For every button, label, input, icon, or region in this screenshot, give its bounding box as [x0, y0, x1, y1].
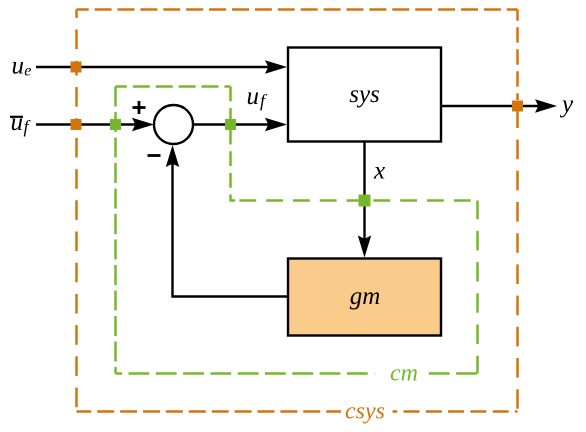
svg-text:gm: gm [350, 283, 381, 310]
svg-text:e: e [24, 63, 31, 80]
svg-text:y: y [559, 91, 574, 118]
svg-text:x: x [373, 158, 385, 185]
svg-text:u: u [12, 53, 25, 80]
svg-text:u: u [247, 83, 260, 110]
svg-text:u: u [11, 109, 24, 136]
svg-text:csys: csys [345, 399, 385, 425]
svg-text:cm: cm [390, 361, 418, 387]
svg-text:sys: sys [349, 81, 380, 108]
